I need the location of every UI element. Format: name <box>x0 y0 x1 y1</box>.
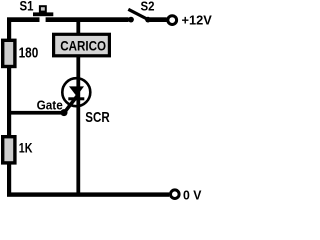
svg-text:1K: 1K <box>19 141 33 157</box>
svg-text:S1: S1 <box>20 0 34 14</box>
thyristor SCR <box>62 57 110 193</box>
svg-text:SCR: SCR <box>85 110 110 126</box>
resistor 180 <box>3 40 39 66</box>
wire to +12V terminal <box>150 17 167 22</box>
switch S2 <box>128 0 154 23</box>
wire top-left segment <box>7 17 40 22</box>
svg-text:0 V: 0 V <box>183 187 202 202</box>
svg-text:CARICO: CARICO <box>60 38 106 54</box>
svg-text:+12V: +12V <box>182 13 213 28</box>
resistor 1K <box>3 137 33 163</box>
svg-text:Gate: Gate <box>37 99 63 113</box>
wire left rail <box>7 18 11 197</box>
wire bottom <box>7 192 169 196</box>
terminal 0V <box>171 187 202 202</box>
wire load branch top <box>76 21 80 34</box>
terminal +12V <box>168 13 212 28</box>
switch S1 pushbutton <box>20 0 54 16</box>
wire top-middle segment <box>46 17 129 22</box>
svg-text:S2: S2 <box>141 0 155 14</box>
load box CARICO <box>54 34 110 56</box>
svg-text:180: 180 <box>19 45 39 61</box>
gate wire <box>9 96 77 116</box>
